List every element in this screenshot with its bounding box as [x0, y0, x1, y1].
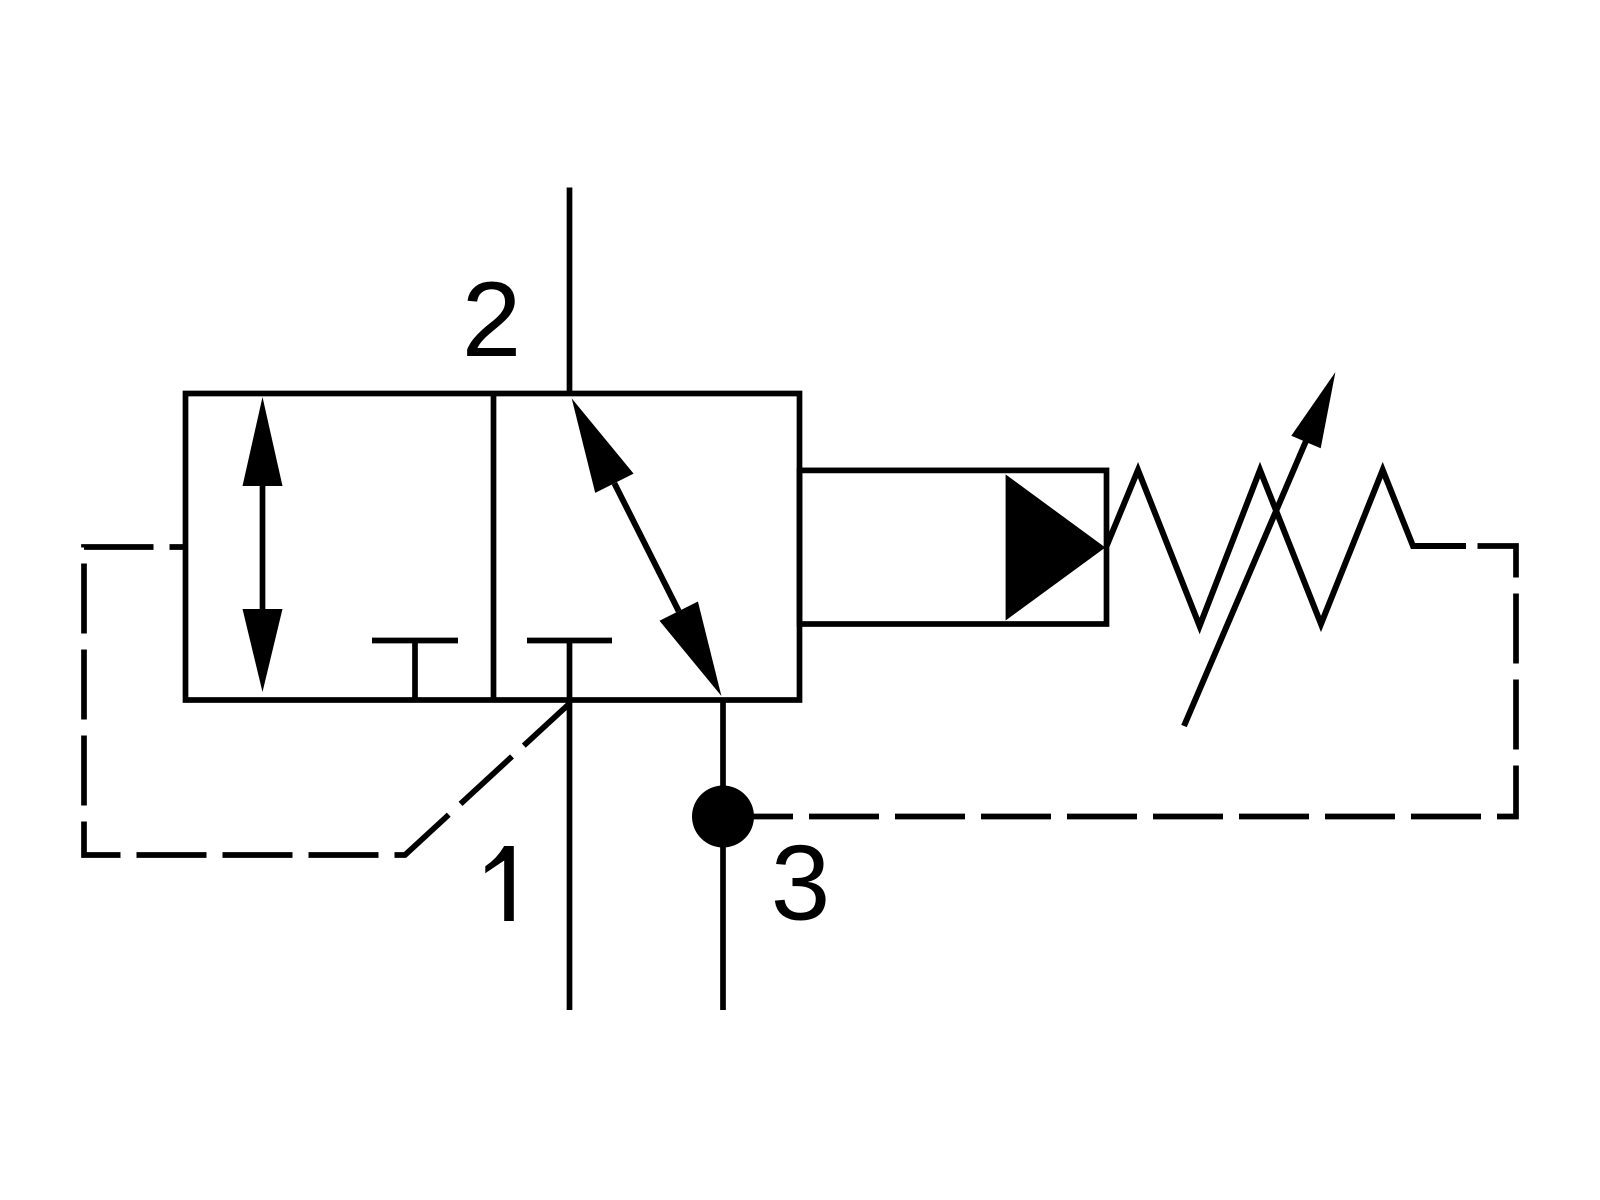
pilot actuator box: [800, 470, 1107, 624]
junction node 3: [692, 786, 754, 848]
flow arrow 2-3, right position (diagonal double arrow): [572, 398, 722, 696]
wire: port 1 line: [567, 700, 573, 1010]
wire: port 3 line: [720, 700, 726, 1010]
svg-text:3: 3: [771, 823, 831, 943]
blocked port symbol, left box: [372, 641, 458, 701]
wire: port 2 line: [567, 188, 573, 397]
spring adjustment arrow: [1184, 372, 1335, 726]
flow arrow, left position (vertical double arrow): [243, 397, 283, 692]
dashed pilot line from port 1 side (left loop): [84, 547, 570, 855]
valve position divider: [491, 394, 497, 701]
dashed pilot/drain line from node 3 to spring (right loop): [723, 546, 1516, 817]
port label 1: [485, 846, 514, 921]
svg-text:2: 2: [462, 259, 522, 379]
pilot pressure triangle: [1006, 474, 1106, 620]
blocked port symbol, right box: [527, 641, 612, 701]
valve envelope (two-position boxes): [186, 394, 800, 701]
adjustable spring: [1107, 470, 1466, 626]
